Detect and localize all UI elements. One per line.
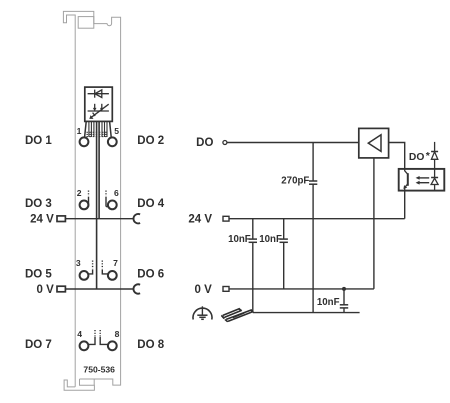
svg-text:10nF: 10nF <box>228 234 251 245</box>
clamp contact pin 1 <box>80 137 89 146</box>
clamp contact pin 2 <box>80 201 89 210</box>
internal bus wire to 0V <box>96 122 98 290</box>
socket arc DO6 <box>134 284 141 293</box>
clamp contact pin 8 <box>108 341 117 350</box>
wire 10nF branch 3 upper <box>343 289 345 305</box>
capacitor C2 10nF <box>249 239 257 242</box>
svg-text:6: 6 <box>114 188 119 198</box>
DIN rail 3D icon <box>223 309 253 322</box>
capacitor C1 270pF <box>309 181 317 184</box>
module outline 750-536 housing <box>63 11 120 390</box>
diode D2 inside opto <box>431 169 438 191</box>
terminal square 24V left <box>57 216 65 222</box>
opto light arrow 2 <box>419 182 429 184</box>
contact spring pin 2 <box>88 191 90 207</box>
status LED DO* <box>431 142 438 169</box>
svg-text:0 V: 0 V <box>37 284 55 296</box>
svg-text:10nF: 10nF <box>259 234 282 245</box>
contact spring pin 6 <box>106 191 108 207</box>
wire 24V module <box>66 218 134 220</box>
svg-text:24 V: 24 V <box>188 214 212 226</box>
svg-text:10nF: 10nF <box>317 297 340 308</box>
terminal square 0V left <box>57 286 65 292</box>
capacitor C4 10nF <box>340 305 348 308</box>
diode D1 inside LED box <box>88 90 109 98</box>
svg-text:24 V: 24 V <box>30 213 54 225</box>
clamp contact pin 6 <box>108 201 117 210</box>
svg-text:7: 7 <box>113 258 118 268</box>
svg-text:DO 8: DO 8 <box>137 339 164 351</box>
svg-text:DO 1: DO 1 <box>25 135 52 147</box>
amplifier box U2 <box>359 128 389 158</box>
svg-text:DO: DO <box>409 152 424 163</box>
contact spring pin 4 <box>88 330 95 344</box>
wire optocoupler emitter to 24V <box>404 191 406 219</box>
svg-text:750-536: 750-536 <box>83 365 115 375</box>
svg-text:1: 1 <box>77 126 82 136</box>
svg-text:DO 4: DO 4 <box>137 198 164 210</box>
svg-text:DO 6: DO 6 <box>137 269 164 281</box>
contact spring pin 3 <box>88 261 92 274</box>
wire amplifier bottom to 0V <box>373 158 375 289</box>
svg-text:270pF: 270pF <box>281 176 309 187</box>
wire amplifier output to optocoupler <box>389 143 405 169</box>
wire DO to amplifier <box>227 142 359 144</box>
svg-text:5: 5 <box>114 126 119 136</box>
phototransistor Q1 <box>405 169 408 191</box>
svg-text:3: 3 <box>76 258 81 268</box>
ribbon wires from LED box to pins <box>85 122 112 138</box>
LED function box U1 <box>85 87 113 121</box>
wire 10nF branch 1 upper <box>252 219 254 239</box>
svg-text:DO 7: DO 7 <box>25 339 52 351</box>
svg-text:2: 2 <box>77 188 82 198</box>
wire 10nF branch 1 lower <box>252 242 254 312</box>
clamp contact pin 5 <box>108 137 117 146</box>
contact spring pin 8 <box>100 330 107 344</box>
wire 10nF branch 2 upper <box>283 219 285 239</box>
ribbon dashed ties <box>86 132 107 136</box>
LED arrows symbol inside LED box <box>88 104 109 117</box>
svg-text:DO 3: DO 3 <box>25 198 52 210</box>
svg-text:4: 4 <box>77 329 82 339</box>
clamp contact pin 3 <box>80 271 89 280</box>
wire 24V schematic <box>229 218 405 220</box>
opto light arrow 1 <box>419 177 429 179</box>
optocoupler box U3 <box>399 169 445 191</box>
wire 10nF branch 2 lower <box>283 242 285 289</box>
socket arc DO4 <box>134 214 141 223</box>
housing top tongue <box>78 17 94 29</box>
contact spring pin 7 <box>102 261 108 274</box>
svg-text:DO 5: DO 5 <box>25 269 52 281</box>
housing bottom foot <box>64 379 94 390</box>
wire 270pF branch lower <box>312 184 314 312</box>
svg-text:DO: DO <box>196 137 213 149</box>
svg-text:8: 8 <box>115 329 120 339</box>
terminal square 0V right <box>223 287 229 292</box>
amplifier triangle <box>368 135 381 152</box>
clamp contact pin 4 <box>80 341 89 350</box>
node DO input circle <box>223 141 227 145</box>
capacitor C3 10nF <box>280 239 288 242</box>
wire 270pF branch upper <box>312 143 314 182</box>
terminal square 24V right <box>223 216 229 221</box>
svg-text:0 V: 0 V <box>195 284 213 296</box>
svg-text:DO 2: DO 2 <box>137 135 164 147</box>
ground rail line <box>253 312 360 314</box>
wire 10nF branch 3 lower <box>343 308 345 313</box>
svg-text:*: * <box>426 150 431 162</box>
ring earth symbol <box>193 306 212 319</box>
clamp contact pin 7 <box>108 271 117 280</box>
junction node 0V / 10nF <box>342 287 346 291</box>
internal bus wire to 24V <box>98 122 100 219</box>
wire 0V module <box>66 288 134 290</box>
wire 0V schematic <box>229 288 374 290</box>
